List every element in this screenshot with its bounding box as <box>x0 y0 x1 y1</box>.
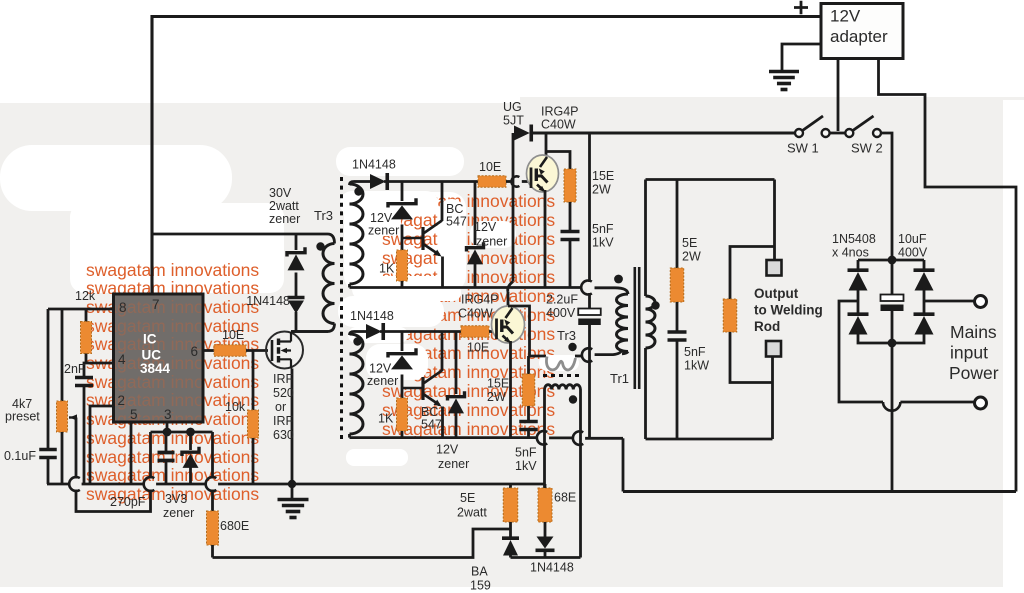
label IRF <box>273 372 294 386</box>
junction Tr3 lower secondary phase dot <box>353 337 361 345</box>
wire output left drop upper <box>644 180 647 297</box>
wire upper zener2 top lead <box>474 182 477 246</box>
wire bridge right upper <box>923 260 926 270</box>
wire lower BC547 emitter drop <box>441 407 444 438</box>
transformer Tr1 primary winding <box>617 294 629 352</box>
svg-text:C40W: C40W <box>458 307 493 321</box>
junction bridge bottom node <box>888 339 897 348</box>
wire lower snubber bottom <box>527 431 530 438</box>
wire Tr3 primary bottom to drain <box>291 324 335 332</box>
junction Tr3 upper secondary phase dot <box>354 187 362 195</box>
svg-text:1N4148: 1N4148 <box>350 309 394 323</box>
label 5E 2W output <box>682 236 697 250</box>
svg-text:400V: 400V <box>898 246 928 260</box>
resistor R14 5E 2watt <box>503 488 518 522</box>
svg-text:15E: 15E <box>487 377 509 391</box>
label 680E <box>220 519 249 533</box>
label 400V bridge <box>898 246 928 260</box>
wire BA159 bottom <box>509 552 512 558</box>
wire Tr3 lower secondary top lead <box>350 332 355 336</box>
wire 2.2uF bottom lead <box>588 325 591 438</box>
wire Tr3 lower secondary bottom lead <box>348 434 351 438</box>
label pin3 <box>164 407 172 422</box>
wire neutral lead to upper terminal <box>924 300 974 303</box>
wire ground rail seg1 <box>47 483 70 486</box>
wire bridge bottom drop <box>891 343 894 492</box>
terminal mains lower <box>975 397 987 409</box>
wire lower channel top seg2 <box>380 330 461 333</box>
wire upper snubber link <box>546 152 570 170</box>
crossover emitter rail over 2.2uF lead <box>581 281 592 295</box>
label pin5 <box>130 407 138 422</box>
label 270pF <box>110 495 146 509</box>
label 2W upper <box>592 183 611 197</box>
svg-text:547: 547 <box>421 418 442 432</box>
wire pin3 CS lead <box>166 422 169 433</box>
zener D10 12V lower gate clamp <box>448 391 465 413</box>
wire lower gate into IGBT <box>489 330 493 333</box>
label 630 <box>273 428 294 442</box>
svg-text:5nF: 5nF <box>592 222 614 236</box>
junction Tr3 primary phase dot <box>316 242 324 250</box>
svg-text:IRG4P: IRG4P <box>541 105 579 119</box>
wire output snubber top <box>676 180 679 269</box>
transistor Q3 BC547 upper <box>402 221 442 257</box>
capacitor C5 2.2uF 400V <box>578 309 601 326</box>
label 10E lower <box>467 341 489 355</box>
diode D8 1N4148 lower <box>366 323 383 340</box>
svg-text:Tr3: Tr3 <box>314 208 333 223</box>
label input <box>950 343 988 363</box>
label 5E 2watt <box>460 491 475 505</box>
resistor R6 10E upper gate <box>478 176 506 188</box>
diode D3 1N4148 series <box>288 298 305 314</box>
wire lower zener2 bottom lead <box>455 412 458 438</box>
svg-text:2: 2 <box>118 393 126 408</box>
junction pin3 node left <box>163 428 172 437</box>
svg-text:2watt: 2watt <box>269 199 299 213</box>
crossover mains dip under bridge drop <box>883 402 900 411</box>
svg-text:SW 2: SW 2 <box>851 141 883 156</box>
wire upper channel top seg2 <box>384 180 478 183</box>
wire bridge right lower <box>892 332 924 343</box>
zener D4 3V3 <box>182 447 199 468</box>
wire live lead to lower terminal <box>839 301 883 402</box>
core Tr3 dashed core line <box>340 177 343 441</box>
wire preset wiper drop <box>75 418 78 479</box>
wire bridge top arms <box>858 258 924 260</box>
svg-text:2.2uF: 2.2uF <box>546 293 578 307</box>
wire lower snubber mid <box>527 406 530 421</box>
label 3844 <box>140 361 171 376</box>
label adapter <box>830 27 888 46</box>
label Power <box>949 363 999 383</box>
wire lower emitter rail seg3 <box>585 437 623 440</box>
wire Tr3 upper secondary bottom lead <box>348 284 351 288</box>
resistor R15 68E <box>538 488 552 522</box>
wire upper gate seg <box>506 180 511 183</box>
svg-text:2W: 2W <box>592 183 611 197</box>
svg-text:12V: 12V <box>474 220 497 234</box>
wire 1N4148 bottom <box>544 551 547 558</box>
svg-text:input: input <box>950 343 988 363</box>
wire Tr1 primary bottom curve <box>622 352 628 354</box>
wire adapter output to switches <box>837 59 840 132</box>
wire 30V zener branch top <box>295 234 298 250</box>
label 547 lower <box>421 418 442 432</box>
crossover lower rail over CT right lead <box>573 431 583 445</box>
junction Tr1 secondary phase dot <box>651 301 659 309</box>
wire upper emitter rail seg1 <box>350 286 582 289</box>
svg-text:12k: 12k <box>75 289 96 303</box>
wire 680E below rail <box>211 490 214 512</box>
label 400V <box>546 306 576 320</box>
svg-text:10k: 10k <box>225 400 246 414</box>
crossover CS loop over ground rail <box>144 477 155 491</box>
wire output bleed loop bottom <box>730 332 773 383</box>
wire lower channel top seg1 <box>354 330 366 333</box>
label 1N4148 upper <box>352 158 396 172</box>
wire upper gate into IGBT <box>522 180 528 183</box>
svg-text:adapter: adapter <box>830 27 888 46</box>
wire 12k bottom to pin4 line <box>85 354 88 364</box>
svg-text:1kV: 1kV <box>592 236 614 250</box>
label 547 upper <box>446 215 467 229</box>
diode D1 UG 5JT <box>514 125 531 142</box>
zener D7 12V upper gate clamp <box>467 242 484 264</box>
label Tr3 <box>314 208 333 223</box>
wire bottom return rail <box>623 490 1016 493</box>
wire 12V positive rail from pin7 riser to adapter <box>152 15 821 18</box>
svg-text:zener: zener <box>476 235 507 249</box>
junction Tr1 primary phase dot <box>614 275 623 284</box>
wire output top rail <box>646 178 775 181</box>
capacitor C1 2nF <box>75 378 93 386</box>
diode D15 BA159 <box>502 538 519 555</box>
core Tr1 core lines <box>635 267 639 389</box>
wire lower terminal to bottom rail <box>771 383 774 440</box>
label zener upper <box>368 224 399 238</box>
wire lower zener2 top lead <box>455 332 458 395</box>
label UC <box>142 348 162 363</box>
wire output bleed loop top <box>730 247 775 300</box>
IC U1 UC3844 body <box>114 294 204 422</box>
label 12V lower <box>369 362 392 376</box>
label UG <box>503 100 522 114</box>
resistor R9 10E lower gate <box>461 326 489 338</box>
wire 2.2uF lead below hop <box>588 293 591 309</box>
svg-text:BA: BA <box>471 565 488 579</box>
wire lower snubber top lead <box>527 356 530 374</box>
resistor R7 1K upper <box>397 250 408 281</box>
wire Tr1 primary bottom seg2 <box>595 350 622 355</box>
wire lower 1K bottom <box>401 431 404 438</box>
label x 4nos <box>832 246 869 260</box>
label 5nF lower <box>515 446 537 460</box>
wire output terminal feed <box>773 180 776 261</box>
label C40W upper <box>541 118 576 132</box>
label pin4 <box>118 352 126 367</box>
terminal output upper square <box>767 260 782 276</box>
wire ground rail seg4 <box>218 483 543 486</box>
resistor R3 10E gate <box>214 345 246 357</box>
wire pin4 RT/CT line <box>84 363 114 377</box>
wire bridge right mid <box>923 288 926 314</box>
svg-text:zener: zener <box>438 457 469 471</box>
core Tr2 dashed core <box>543 374 581 377</box>
capacitor C3 270pF <box>158 453 175 461</box>
resistor R13 output bleed <box>723 299 737 332</box>
wire 5E2watt to CS node <box>509 522 512 537</box>
label BA <box>471 565 488 579</box>
wire output left drop lower <box>644 348 647 439</box>
label Tr3 sense <box>557 328 576 343</box>
label 5nF output <box>684 345 706 359</box>
svg-text:x 4nos: x 4nos <box>832 246 869 260</box>
transformer Tr3 secondary lower winding <box>350 334 364 434</box>
wire lower zener1 to base node <box>401 375 404 399</box>
crossover Tr1 bottom wire over 2.2uF lead <box>582 348 592 362</box>
wire preset top lead <box>61 309 64 401</box>
wire feed to 30V zener and Tr3 primary <box>152 234 335 244</box>
terminal output lower square <box>766 341 781 357</box>
diode D11 1N5408 <box>848 270 869 290</box>
resistor R4 10k <box>248 410 259 438</box>
wire 3V3 zener bottom lead <box>189 467 192 485</box>
crossover 680E wire over ground rail <box>206 477 217 491</box>
wire gate lead to MOSFET <box>246 349 268 352</box>
wire pin8 VREF line <box>48 308 114 311</box>
label IRF2 <box>273 414 294 428</box>
wire MOSFET drain to Tr3 primary <box>291 330 328 333</box>
wire 10uF bottom lead <box>891 311 894 343</box>
wire 1N4148 to MOSFET drain node <box>295 312 298 332</box>
label 1N5408 <box>832 232 876 246</box>
label 1kW output <box>684 359 709 373</box>
svg-text:12V: 12V <box>436 443 459 457</box>
wire VREF riser to 0.1uF <box>47 309 50 448</box>
svg-text:1K: 1K <box>379 262 395 276</box>
svg-text:Power: Power <box>949 363 999 383</box>
diode D16 1N4148 CS <box>536 537 555 551</box>
wire SW rail <box>532 131 795 134</box>
wire 10k gate drop <box>252 351 255 411</box>
transistor Q5 IRG4PC40W upper IGBT <box>527 155 559 192</box>
svg-text:Output: Output <box>754 286 799 301</box>
svg-text:3844: 3844 <box>140 361 171 376</box>
wire lower collector link <box>508 306 546 356</box>
label 159 <box>470 579 491 593</box>
svg-text:30V: 30V <box>269 186 292 200</box>
svg-text:10uF: 10uF <box>898 232 927 246</box>
wire 680E drop from pin3 node <box>211 432 214 479</box>
svg-text:159: 159 <box>470 579 491 593</box>
wire adapter ground stub <box>782 44 821 71</box>
label C40W lower <box>458 307 493 321</box>
label 1N4148 CS <box>530 561 574 575</box>
label Rod <box>754 319 780 334</box>
wire upper zener1 top lead <box>401 182 404 202</box>
transformer Tr2 sense winding upper (hand-drawn) <box>546 357 575 370</box>
label 30V 2watt zener <box>269 186 292 200</box>
label 15E upper <box>592 169 614 183</box>
wire pin3 node horizontal <box>151 431 213 434</box>
wire CT left lead <box>543 390 546 489</box>
svg-text:10E: 10E <box>222 328 244 342</box>
label 10uF <box>898 232 927 246</box>
wire MOSFET source drop <box>291 369 294 485</box>
wire 0.1uF to ground rail <box>47 459 50 484</box>
label IRG4P lower <box>461 293 499 307</box>
svg-text:0.1uF: 0.1uF <box>4 449 36 463</box>
junction bridge top node <box>888 256 897 265</box>
wire lower terminal stem <box>771 357 774 383</box>
resistor R8 15E 2W upper <box>564 169 576 202</box>
junction MOSFET source to ground rail <box>288 480 296 488</box>
crossover lower rail over CT left lead <box>537 431 547 445</box>
label 2nF <box>64 362 86 376</box>
svg-text:5nF: 5nF <box>684 345 706 359</box>
label 12V upper clamp <box>474 220 497 234</box>
zener D9 12V lower <box>388 348 416 369</box>
label 10k <box>225 400 246 414</box>
label 10E upper <box>479 160 501 174</box>
svg-text:zener: zener <box>163 506 194 520</box>
resistor R12 5E 2W output <box>670 268 684 302</box>
wire UG5JT riser lower <box>507 292 510 308</box>
svg-text:2watt: 2watt <box>457 506 487 520</box>
svg-text:to Welding: to Welding <box>754 303 823 318</box>
junction CT lower phase dot <box>569 395 577 403</box>
svg-text:3V3: 3V3 <box>165 492 187 506</box>
label preset <box>5 410 40 424</box>
wire upper IGBT emitter drop <box>544 190 547 288</box>
wire CS bottom link <box>511 556 581 559</box>
switch SW1 <box>795 116 830 137</box>
wire Tr3 upper secondary top lead <box>350 182 355 186</box>
svg-text:2nF: 2nF <box>64 362 86 376</box>
wire adapter mains lead <box>879 59 1017 492</box>
svg-text:630: 630 <box>273 428 294 442</box>
wire wiper loop up to pin3 node <box>149 432 152 479</box>
label 5JT <box>503 114 524 128</box>
svg-text:3: 3 <box>164 407 172 422</box>
wire 270pF top lead <box>165 432 168 452</box>
svg-text:5: 5 <box>130 407 138 422</box>
label zener lower clamp <box>438 457 469 471</box>
svg-text:5JT: 5JT <box>503 114 524 128</box>
IC U1 UC3844 outline <box>114 294 204 422</box>
label zener upper clamp <box>476 235 507 249</box>
svg-text:1N4148: 1N4148 <box>246 294 290 308</box>
transformer Tr3 primary winding <box>323 244 334 324</box>
wire upper emitter rail seg2 <box>595 288 629 294</box>
wire upper 1K bottom <box>401 281 404 288</box>
wiper 4k7 preset arrow <box>69 414 77 420</box>
svg-text:Mains: Mains <box>950 322 997 342</box>
transformer Tr2 sense winding lower <box>545 385 581 390</box>
svg-text:5E: 5E <box>460 491 475 505</box>
svg-text:10E: 10E <box>467 341 489 355</box>
wire upper BC547 collector riser <box>441 182 444 222</box>
label 12V lower clamp <box>436 443 459 457</box>
label 2.2uF <box>546 293 578 307</box>
label 520 <box>273 386 294 400</box>
label 1K lower <box>378 412 394 426</box>
wire output snubber bottom <box>676 341 679 439</box>
svg-text:1N4148: 1N4148 <box>530 561 574 575</box>
resistor R10 1K lower <box>397 398 408 431</box>
label plus terminal <box>794 1 808 14</box>
label 3V3 zener <box>163 506 194 520</box>
transformer Tr3 secondary upper winding <box>350 184 364 284</box>
transformer Tr1 secondary winding <box>646 296 656 348</box>
wire 2.2uF top lead <box>588 133 591 282</box>
svg-text:IRF: IRF <box>273 372 294 386</box>
ground symbol adapter <box>769 72 799 90</box>
label 4k7 <box>12 397 32 411</box>
zener D6 12V upper <box>388 198 416 219</box>
label 30V 2watt zener line2 <box>269 199 299 213</box>
label BC lower <box>421 405 438 419</box>
svg-text:680E: 680E <box>220 519 249 533</box>
label to Welding <box>754 303 823 318</box>
wire bridge left lower <box>858 332 892 343</box>
diode D14 1N5408 <box>914 314 935 334</box>
wire 68E top lead stub <box>544 484 547 488</box>
svg-text:68E: 68E <box>554 491 576 505</box>
resistor P1 4k7 preset body <box>57 401 68 432</box>
capacitor C9 10uF 400V <box>881 295 904 312</box>
svg-text:zener: zener <box>269 212 300 226</box>
svg-text:zener: zener <box>367 374 398 388</box>
block 12V adapter box <box>821 4 903 59</box>
wire bridge left mid <box>857 288 860 314</box>
label zener lower <box>367 374 398 388</box>
label or <box>275 400 286 414</box>
wire pin6 output lead <box>203 349 214 352</box>
ground symbol main <box>278 500 309 518</box>
svg-text:zener: zener <box>368 224 399 238</box>
label pin6 <box>191 344 199 359</box>
switch SW2 <box>845 116 881 137</box>
label pin7 <box>152 297 160 312</box>
svg-text:1N5408: 1N5408 <box>832 232 876 246</box>
label 3V3 <box>165 492 187 506</box>
wire upper channel top seg1 <box>354 180 370 183</box>
wire UG5JT riser upper <box>512 133 515 282</box>
wire CT right lead <box>579 390 582 558</box>
svg-text:5nF: 5nF <box>515 446 537 460</box>
junction CT upper phase dot <box>568 343 576 351</box>
label 0.1uF <box>4 449 36 463</box>
wire 12k top lead <box>85 309 88 322</box>
svg-text:10E: 10E <box>479 160 501 174</box>
wire ground stem <box>291 484 294 498</box>
label pin8 <box>119 300 127 315</box>
wire 68E to 1N4148 <box>544 522 547 537</box>
svg-text:1K: 1K <box>378 412 394 426</box>
label 2W output <box>682 250 701 264</box>
svg-text:520: 520 <box>273 386 294 400</box>
wire 680E to CS bus <box>211 545 214 558</box>
svg-text:2W: 2W <box>682 250 701 264</box>
resistor R11 15E 2W lower <box>522 374 535 406</box>
svg-text:15E: 15E <box>592 169 614 183</box>
wire wiper loop under ground rail <box>76 490 151 512</box>
wire output snubber mid <box>676 302 679 332</box>
diode D13 1N5408 <box>914 270 935 290</box>
